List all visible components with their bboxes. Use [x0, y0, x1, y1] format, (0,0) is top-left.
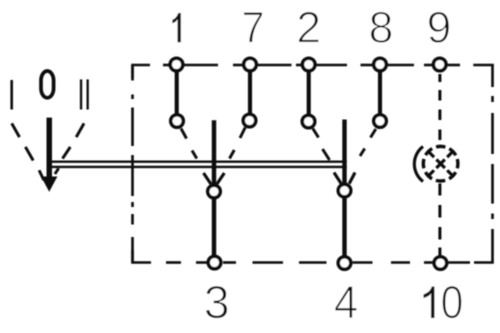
wire: pole P1 to terminal 3 [212, 199, 216, 257]
pin number 2 [299, 12, 319, 43]
enclosure outline: bottom edge (dashed) [133, 250, 493, 263]
dashed contact path: contact 7 to pole P1 [230, 128, 246, 159]
enclosure outline: right edge (dash-dot) [491, 65, 494, 263]
contact circle of terminal 2 [302, 115, 315, 128]
dashed stroke: actuator alternate position II [55, 123, 84, 174]
glyph 0 of 10 [442, 286, 462, 319]
terminal 4 [338, 257, 351, 270]
lamp E1 (illumination, dashed circle with X) [419, 142, 462, 185]
dashed contact path: contact 2 to pole P2 [313, 129, 330, 161]
terminal 10 [434, 257, 447, 270]
pole P2 driver rod (above bar) [342, 120, 346, 186]
lamp reflector arc [414, 147, 423, 182]
terminal 9 [433, 58, 446, 71]
enclosure outline: top edge (dashed) [133, 65, 493, 78]
label position II [80, 79, 89, 109]
arrowhead at pole P2 [334, 173, 355, 184]
actuator arrow (position 0) [41, 118, 57, 192]
pin number 8 [371, 12, 392, 44]
terminal 3 [208, 256, 221, 269]
wire: terminal 7 to moving contact [248, 70, 252, 114]
pin number 9 [429, 12, 450, 44]
wire: pole P2 to terminal 4 [342, 198, 346, 256]
wire: terminal 1 to moving contact [175, 70, 179, 115]
dashed contact path: contact 8 to pole P2 [360, 129, 376, 156]
dashed wire: lamp to terminal 10 [438, 184, 441, 256]
label position 0 [41, 71, 54, 98]
terminal 7 [244, 58, 257, 71]
contact circle of terminal 7 [243, 114, 256, 127]
arrowhead at pole P1 [204, 173, 225, 184]
actuator bridge bar (double line) [51, 162, 346, 167]
contact circle of terminal 1 [171, 115, 184, 128]
dashed stroke: actuator alternate position I [12, 123, 44, 180]
pole P1 contact circle [208, 185, 221, 198]
pin number 7 [244, 12, 263, 43]
terminal 1 [170, 58, 183, 71]
contact circle of terminal 8 [374, 115, 387, 128]
enclosure outline: left edge (dash-dot) [131, 65, 134, 263]
dashed wire: terminal 9 to lamp [438, 74, 441, 140]
dashed contact path: contact 1 to pole P1 [181, 129, 197, 159]
label position I [10, 80, 13, 110]
pin number 3 [206, 286, 228, 319]
wire: terminal 8 to moving contact [378, 70, 382, 114]
pole P2 contact circle [338, 184, 351, 197]
pin number 1 [172, 13, 181, 43]
terminal 2 [302, 58, 315, 71]
pin number 4 [335, 286, 357, 318]
pin number 10 [423, 286, 434, 318]
terminal 8 [374, 58, 387, 71]
wire: terminal 2 to moving contact [307, 70, 311, 115]
pole P1 driver rod (above bar) [212, 120, 216, 185]
